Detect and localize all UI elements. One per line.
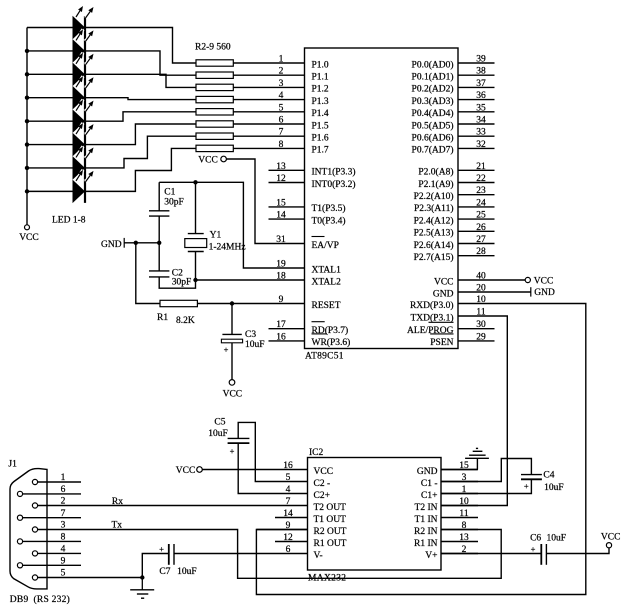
pin 16 WR(P3.6) (overline WR) [269, 332, 351, 348]
wire resistor R8 to P1.6 pin 7 [233, 135, 304, 137]
DB9 pin 2 [32, 497, 81, 508]
pin 12 INT0(P3.2) [269, 174, 356, 190]
LED D4 [73, 76, 94, 109]
pin 38 P0.1(AD1) [412, 67, 495, 83]
svg-text:14: 14 [276, 211, 286, 221]
svg-text:P1.5: P1.5 [312, 121, 329, 131]
pin 2 P1.1 [279, 67, 329, 83]
pin 1 P1.0 [279, 55, 329, 71]
svg-text:6: 6 [286, 545, 291, 555]
svg-text:29: 29 [476, 332, 486, 342]
svg-text:R1 OUT: R1 OUT [314, 539, 347, 549]
svg-text:V-: V- [314, 551, 323, 561]
pin 31 EA/VP (overline EA) [276, 235, 339, 251]
wire GND down to R1 [136, 243, 160, 304]
wire R2 OUT to loop [256, 529, 275, 531]
wire Tx DB9 pin 3 to R2 IN loop [81, 530, 501, 579]
wire LED7 cathode to resistor R8 [86, 136, 196, 168]
MAX232 pin 10 T2 IN [415, 497, 478, 513]
wire C6 to VCC terminal [546, 548, 609, 554]
svg-text:+: + [524, 481, 529, 491]
svg-text:11: 11 [459, 509, 468, 519]
power terminal VCC (C6) [601, 532, 621, 548]
resistor R2 [196, 60, 233, 66]
svg-text:10: 10 [459, 497, 469, 507]
DB9 pin 5 [32, 569, 81, 580]
svg-text:IC2: IC2 [309, 448, 324, 458]
MAX232 pin 14 T1 OUT [275, 509, 346, 525]
svg-text:GND: GND [101, 240, 122, 250]
wire R1 to RESET pin 9 [197, 303, 304, 305]
svg-text:R2 IN: R2 IN [414, 527, 438, 537]
pin 4 P1.3 [279, 91, 329, 107]
LED D7 [73, 146, 94, 179]
svg-text:R2-9 560: R2-9 560 [195, 43, 231, 53]
svg-text:INT0(P3.2): INT0(P3.2) [312, 179, 356, 190]
wire LED4 cathode to resistor R5 [86, 98, 196, 100]
MAX232 pin 16 VCC [275, 461, 333, 477]
svg-text:VCC: VCC [534, 276, 554, 286]
svg-text:VCC: VCC [314, 467, 334, 477]
svg-text:R1: R1 [157, 313, 168, 323]
pin 39 P0.0(AD0) [412, 55, 495, 71]
MAX232 pin 1 C1+ [421, 485, 478, 501]
junction C1-top/Y1 node [193, 180, 197, 184]
svg-text:8: 8 [61, 533, 66, 543]
label Tx [112, 520, 123, 530]
svg-text:P1.0: P1.0 [312, 60, 329, 70]
pin 13 INT1(P3.3) [269, 162, 356, 178]
MAX232 pin 9 R2 OUT [275, 521, 347, 537]
DB9 pin 8 [17, 533, 81, 544]
pin 7 P1.6 [279, 128, 329, 144]
svg-text:10uF: 10uF [544, 483, 564, 493]
svg-text:XTAL2: XTAL2 [312, 277, 342, 287]
svg-text:1-24MHz: 1-24MHz [209, 243, 246, 253]
svg-text:5: 5 [61, 569, 66, 579]
wire resistor R7 to P1.5 pin 6 [233, 123, 304, 125]
svg-text:10uF: 10uF [177, 567, 197, 577]
svg-text:C2 -: C2 - [314, 479, 331, 489]
wire VCC to MAX232 pin 16 [202, 469, 275, 471]
svg-text:+: + [230, 446, 235, 456]
wire VCC to EA/VP pin 31 [226, 159, 304, 244]
svg-text:ALE/PROG: ALE/PROG [407, 326, 454, 336]
wire LED3 anode [27, 73, 73, 75]
svg-text:C3: C3 [245, 330, 256, 340]
svg-text:1: 1 [61, 473, 66, 483]
resistor R4 [196, 84, 233, 90]
svg-text:P2.1(A9): P2.1(A9) [418, 179, 453, 190]
junction on VCC bus at LED3 row [25, 72, 29, 76]
svg-text:P0.2(AD2): P0.2(AD2) [412, 84, 454, 95]
wire C2 bottom jog to XTAL2 node [159, 277, 195, 288]
MAX232 pin 6 V- [275, 545, 323, 561]
pin 3 P1.2 [279, 79, 329, 95]
svg-text:PSEN: PSEN [430, 338, 453, 348]
svg-text:33: 33 [476, 128, 486, 138]
junction on VCC bus at LED2 row [25, 49, 29, 53]
junction GND/R1 branch [134, 241, 138, 245]
junction on VCC bus at LED8 row [25, 189, 29, 193]
svg-text:VCC: VCC [601, 532, 621, 542]
pin 15 T1(P3.5) [269, 198, 346, 214]
LED D8 [73, 170, 94, 203]
node A: C1/Y1 top net wire [159, 182, 304, 268]
pin 6 P1.5 [279, 116, 329, 132]
pin 10 RXD(P3.0) [410, 295, 486, 311]
svg-text:P1.3: P1.3 [312, 97, 329, 107]
resistor R1 [157, 300, 197, 326]
pin 18 XTAL2 [276, 272, 341, 288]
svg-text:37: 37 [476, 79, 486, 89]
pin 33 P0.6(AD6) [412, 128, 495, 144]
svg-text:4: 4 [286, 485, 291, 495]
svg-text:C5: C5 [214, 417, 225, 427]
svg-text:2: 2 [61, 497, 66, 507]
svg-text:+: + [531, 544, 536, 554]
wire XTAL2 net to pin 18 [196, 279, 305, 281]
pin 17 RD(P3.7) (overline RD) [269, 320, 349, 336]
label LED 1-8 [52, 216, 86, 226]
pin 5 P1.4 [279, 103, 329, 119]
wire RXD(P3.0) to R2 OUT loop [256, 304, 585, 595]
ground GND (crystal caps) [101, 238, 124, 250]
LED D6 [73, 123, 94, 156]
svg-text:T1 IN: T1 IN [415, 515, 438, 525]
MAX232 pin 8 R2 IN [414, 521, 478, 537]
svg-text:P2.4(A12): P2.4(A12) [414, 215, 454, 226]
svg-text:10uF: 10uF [208, 429, 228, 439]
svg-text:6: 6 [61, 485, 66, 495]
svg-text:+: + [159, 544, 164, 554]
pin 36 P0.3(AD3) [412, 91, 495, 107]
wire LED1 cathode to resistor R2 [86, 28, 196, 64]
pin 28 P2.7(A15) [414, 247, 495, 263]
wire C4 bottom to C1+ pin 1 [441, 479, 531, 493]
svg-text:5: 5 [279, 103, 284, 113]
svg-text:P0.6(AD6): P0.6(AD6) [412, 133, 454, 144]
svg-text:Y1: Y1 [210, 231, 222, 241]
svg-text:P0.0(AD0): P0.0(AD0) [412, 59, 454, 70]
svg-text:C2+: C2+ [314, 491, 330, 501]
svg-text:WR(P3.6): WR(P3.6) [312, 337, 351, 348]
svg-text:13: 13 [276, 162, 286, 172]
svg-text:9: 9 [286, 521, 291, 531]
svg-text:P1.1: P1.1 [312, 73, 329, 83]
svg-text:15: 15 [276, 198, 286, 208]
pin 32 P0.7(AD7) [412, 140, 495, 156]
pin 9 RESET [279, 295, 341, 311]
svg-text:1: 1 [279, 55, 284, 65]
svg-text:P1.7: P1.7 [312, 146, 329, 156]
resistor R7 [196, 121, 233, 127]
wire LED8 anode [27, 190, 73, 192]
MAX232 pin 2 V+ [425, 545, 478, 561]
capacitor C2 [149, 269, 191, 288]
svg-text:8.2K: 8.2K [176, 316, 195, 326]
svg-text:XTAL1: XTAL1 [312, 265, 342, 275]
wire C1 bottom to C2 top [158, 216, 160, 271]
capacitor C6 (electrolytic) [530, 534, 566, 565]
wire LED7 anode [27, 167, 73, 169]
svg-text:28: 28 [476, 247, 486, 257]
wire LED1 anode [27, 27, 73, 29]
svg-text:P2.6(A14): P2.6(A14) [414, 240, 454, 251]
svg-text:P2.0(A8): P2.0(A8) [418, 167, 453, 178]
svg-text:GND: GND [534, 288, 555, 298]
wire LED6 cathode to resistor R7 [86, 124, 196, 145]
pin 26 P2.5(A13) [414, 223, 495, 239]
svg-text:30pF: 30pF [172, 278, 192, 288]
op: IC U1 AT89C51 body [305, 48, 459, 362]
wire GND pin 20 [458, 291, 531, 293]
svg-text:26: 26 [476, 223, 486, 233]
svg-text:30pF: 30pF [164, 198, 184, 208]
svg-text:R1 IN: R1 IN [414, 539, 438, 549]
svg-text:7: 7 [61, 509, 66, 519]
pin 27 P2.6(A14) [414, 235, 495, 251]
MAX232 pin 5 C2 - [275, 473, 330, 489]
svg-text:P2.7(A15): P2.7(A15) [414, 252, 454, 263]
resistor R8 [196, 133, 233, 139]
svg-text:V+: V+ [425, 551, 437, 561]
svg-text:VCC: VCC [19, 233, 39, 243]
MAX232 pin 4 C2+ [275, 485, 330, 501]
svg-text:P0.7(AD7): P0.7(AD7) [412, 145, 454, 156]
svg-text:R2 OUT: R2 OUT [314, 527, 347, 537]
pin 40 VCC [434, 272, 486, 288]
svg-text:17: 17 [276, 320, 286, 330]
svg-text:C4: C4 [543, 471, 554, 481]
svg-text:9: 9 [61, 557, 66, 567]
svg-text:J1: J1 [8, 460, 17, 470]
wire VCC bus vertical (LED anodes common rail) [26, 28, 28, 225]
svg-text:5: 5 [286, 473, 291, 483]
svg-text:LED 1-8: LED 1-8 [52, 216, 86, 226]
svg-text:27: 27 [476, 235, 486, 245]
svg-text:7: 7 [279, 128, 284, 138]
wire VCC pin 40 [458, 279, 525, 281]
svg-text:12: 12 [276, 174, 286, 184]
DB9 pin 7 [17, 509, 81, 520]
pin 34 P0.5(AD5) [412, 116, 495, 132]
capacitor C4 (electrolytic) [521, 471, 564, 494]
junction on VCC bus at LED6 row [25, 142, 29, 146]
svg-text:22: 22 [476, 174, 486, 184]
wire Y1 bottom lead [195, 252, 197, 281]
svg-text:C1: C1 [164, 188, 175, 198]
wire LED2 cathode to resistor R3 [86, 51, 196, 75]
resistor R6 [196, 109, 233, 115]
svg-text:7: 7 [286, 497, 291, 507]
wire C1- pin 3 to C4 top [441, 459, 531, 482]
wire LED4 anode [27, 97, 73, 99]
capacitor C5 (electrolytic) [208, 417, 249, 456]
MAX232 pin 7 T2 OUT [275, 497, 346, 513]
pin 14 T0(P3.4) [269, 211, 346, 227]
svg-text:GND: GND [433, 289, 454, 299]
wire resistor R6 to P1.4 pin 5 [233, 111, 304, 113]
ground earth (MAX232 pin 15) [441, 448, 489, 469]
pin 35 P0.4(AD4) [412, 103, 495, 119]
wire RESET node down to C3 [231, 304, 233, 335]
svg-text:34: 34 [476, 116, 486, 126]
junction GND on C1-C2 column [157, 241, 161, 245]
capacitor C1 [149, 182, 184, 216]
wire V- to C7 [174, 553, 275, 555]
LED D3 [73, 53, 94, 86]
wire LED8 cathode to resistor R9 [86, 148, 196, 191]
svg-text:6: 6 [279, 116, 284, 126]
wire LED3 cathode to resistor R4 [86, 74, 196, 87]
svg-text:P0.5(AD5): P0.5(AD5) [412, 120, 454, 131]
svg-text:TXD(P3.1): TXD(P3.1) [410, 312, 453, 323]
svg-text:VCC: VCC [176, 466, 196, 476]
pin 37 P0.2(AD2) [412, 79, 495, 95]
resistor R3 [196, 72, 233, 78]
wire T2 OUT to DB9 pin 2 (Rx) [81, 505, 275, 507]
junction on VCC bus at LED4 row [25, 96, 29, 100]
IC U2 MAX232 body [308, 448, 442, 584]
svg-text:T0(P3.4): T0(P3.4) [312, 215, 346, 226]
wire resistor R9 to P1.7 pin 8 [233, 147, 304, 149]
svg-text:GND: GND [417, 467, 438, 477]
wire Y1 top lead [195, 182, 197, 233]
MAX232 pin 15 GND [417, 461, 478, 477]
wire resistor R5 to P1.3 pin 4 [233, 99, 304, 101]
junction on VCC bus at LED5 row [25, 119, 29, 123]
svg-text:3: 3 [279, 79, 284, 89]
svg-text:INT1(P3.3): INT1(P3.3) [312, 167, 356, 178]
svg-text:32: 32 [476, 140, 486, 150]
MAX232 pin 11 T1 IN [415, 509, 478, 525]
capacitor C3 (electrolytic) [221, 330, 264, 355]
LED D5 [73, 100, 94, 133]
junction on VCC bus at LED7 row [25, 166, 29, 170]
connector J1 DB9 body [8, 460, 69, 606]
power terminal VCC (LED rail) [19, 225, 39, 243]
power terminal VCC (pin 40) [525, 276, 553, 286]
pin 8 P1.7 [279, 140, 329, 156]
svg-text:25: 25 [476, 211, 486, 221]
pin 30 ALE/PROG (overline PROG) [407, 320, 494, 336]
wire TXD(P3.1) to T2 IN loop [441, 316, 507, 506]
DB9 pin 3 [32, 521, 81, 532]
svg-text:+: + [224, 345, 229, 355]
svg-text:T2 OUT: T2 OUT [314, 503, 347, 513]
wire LED5 anode [27, 120, 73, 122]
wire resistor R2 to P1.0 pin 1 [233, 62, 304, 64]
svg-text:16: 16 [283, 461, 293, 471]
MAX232 pin 13 R1 IN [414, 533, 478, 549]
svg-text:Rx: Rx [112, 497, 123, 507]
label Rx [112, 497, 123, 507]
svg-text:EA/VP: EA/VP [312, 241, 339, 251]
svg-text:3: 3 [61, 521, 66, 531]
svg-text:8: 8 [279, 140, 284, 150]
wire C3 to VCC terminal [231, 343, 233, 380]
svg-text:RESET: RESET [312, 301, 341, 311]
svg-text:P2.3(A11): P2.3(A11) [414, 203, 454, 214]
svg-text:P0.3(AD3): P0.3(AD3) [412, 96, 454, 107]
pin 25 P2.4(A12) [414, 211, 495, 227]
svg-text:DB9 (RS 232): DB9 (RS 232) [10, 594, 70, 605]
power terminal VCC (EA/VP) [198, 156, 226, 166]
wire C5 top to C2- pin 5 [238, 422, 275, 481]
power terminal VCC (MAX232 pin 16) [176, 466, 203, 476]
svg-text:P2.5(A13): P2.5(A13) [414, 228, 454, 239]
wire C5 bottom to C2+ pin 4 [238, 443, 275, 493]
wire LED2 anode [27, 50, 73, 52]
pin 22 P2.1(A9) [418, 174, 494, 190]
pin 11 TXD(P3.1) [410, 308, 485, 324]
svg-text:Tx: Tx [112, 520, 123, 530]
pin 20 GND [433, 284, 486, 300]
wire C7 to ground [142, 554, 169, 578]
svg-text:2: 2 [279, 67, 284, 77]
svg-text:P1.4: P1.4 [312, 109, 329, 119]
pin 24 P2.3(A11) [414, 198, 495, 214]
svg-text:C1+: C1+ [421, 491, 437, 501]
svg-text:4: 4 [279, 91, 284, 101]
svg-text:P0.1(AD1): P0.1(AD1) [412, 72, 454, 83]
MAX232 pin 3 C1 - [421, 473, 478, 489]
svg-text:12: 12 [283, 533, 293, 543]
svg-text:4: 4 [61, 545, 66, 555]
svg-text:13: 13 [459, 533, 469, 543]
pin 19 XTAL1 [276, 260, 341, 276]
crystal Y1 [185, 231, 246, 253]
capacitor C7 (electrolytic) [159, 544, 197, 577]
wire LED5 cathode to resistor R6 [86, 112, 196, 121]
svg-text:23: 23 [476, 186, 486, 196]
svg-text:16: 16 [276, 332, 286, 342]
svg-text:P0.4(AD4): P0.4(AD4) [412, 108, 454, 119]
svg-text:RXD(P3.0): RXD(P3.0) [410, 300, 454, 311]
LED D1 [73, 6, 94, 39]
resistor R9 [196, 145, 233, 151]
svg-text:21: 21 [476, 162, 486, 172]
svg-text:P1.6: P1.6 [312, 134, 329, 144]
svg-text:C6: C6 [530, 534, 541, 544]
svg-text:VCC: VCC [434, 277, 454, 287]
wire DB9 pin 5 to ground node [81, 577, 142, 579]
svg-text:30: 30 [476, 320, 486, 330]
pin 23 P2.2(A10) [414, 186, 495, 202]
MAX232 pin 12 R1 OUT [275, 533, 347, 549]
resistor R5 [196, 96, 233, 102]
svg-text:38: 38 [476, 67, 486, 77]
svg-text:C1 -: C1 - [421, 479, 438, 489]
svg-text:P2.2(A10): P2.2(A10) [414, 191, 454, 202]
junction DB9 ground node [140, 575, 144, 579]
svg-text:14: 14 [283, 509, 293, 519]
svg-text:AT89C51: AT89C51 [305, 352, 344, 362]
wire resistor R4 to P1.2 pin 3 [233, 86, 304, 88]
junction RESET/C3 node [230, 301, 234, 305]
wire V+ pin 2 to C6 [441, 553, 541, 555]
svg-text:39: 39 [476, 55, 486, 65]
svg-text:35: 35 [476, 103, 486, 113]
wire resistor R3 to P1.1 pin 2 [233, 74, 304, 76]
svg-text:T1(P3.5): T1(P3.5) [312, 203, 346, 214]
LED D2 [73, 29, 94, 62]
DB9 pin 9 [17, 557, 81, 568]
label R2-9 560 [195, 43, 231, 53]
svg-text:C7: C7 [159, 567, 170, 577]
power terminal VCC (reset) [223, 380, 243, 400]
